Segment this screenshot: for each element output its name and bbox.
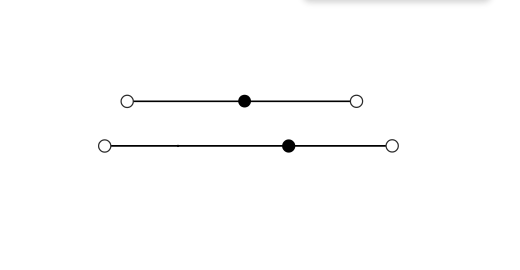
node (segment 1 midpoint, filled) [238,95,251,108]
node (segment 1 left endpoint, open) [121,95,133,107]
node (segment 2 right endpoint, open) [386,140,398,152]
node (segment 2 left endpoint, open) [99,140,111,152]
node (segment 1 right endpoint, open) [350,95,362,107]
node (segment 2 point, filled) [282,139,295,152]
junction (small dot on segment 2) [177,145,179,147]
wire (segment 2) [105,145,393,147]
wire (segment 1) [127,100,356,102]
